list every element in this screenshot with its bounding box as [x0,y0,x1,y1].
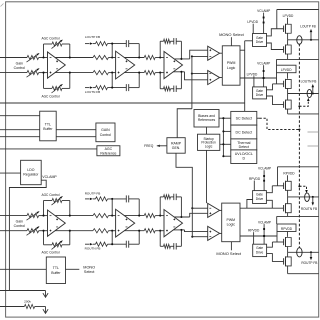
comparator R N [208,226,222,240]
wire R stage3 P to comparator [190,213,208,217]
wire AGC reference input [0,148,97,150]
node RPVDD D right boxed [277,224,296,237]
svg-text:LPVDD: LPVDD [283,14,294,18]
svg-text:TTL: TTL [45,122,51,126]
variable resistor AGC feedback L top [41,36,69,58]
wire LOUTN node [288,88,319,100]
wire Startup to PWM R [206,150,208,203]
wire PWM L out1 [240,49,245,51]
svg-text:PWM: PWM [227,61,236,65]
svg-text:VCLAMP: VCLAMP [257,9,270,13]
svg-text:MONO Select: MONO Select [219,32,245,37]
gate drive C [253,191,267,204]
feedback R stage3 bottom RC [160,230,181,250]
svg-text:Select: Select [84,270,95,274]
svg-text:LPVDD: LPVDD [281,68,292,72]
resistor L stage3 in P [144,55,164,59]
node VCLAMP A [257,9,270,34]
wire PGND D [288,266,319,274]
wire ramp to L comparators [191,55,208,108]
svg-text:LOUTP FB: LOUTP FB [300,25,316,29]
wire L stage1 out P [55,56,93,58]
transistor A low-side [284,45,292,55]
wire gate B high [267,73,284,90]
wire RAMP GEN output to R comparators [176,153,192,237]
sense loop LOUTP [297,36,302,45]
svg-text:RPVDD: RPVDD [248,229,260,233]
block GAIN Control [96,123,115,142]
comparator L N [208,71,223,85]
wire L stage2 out N [122,72,144,74]
block PWM Logic L [222,46,240,85]
svg-text:VCLAMP: VCLAMP [258,220,271,224]
svg-text:200k: 200k [24,300,31,304]
wire L stage2 out P [122,56,144,58]
buffer U-TTL2 [0,257,66,284]
svg-text:MONO Select: MONO Select [216,251,242,256]
dashed branch to ROUTN sense [298,185,307,193]
node VCLAMP D [258,220,271,244]
svg-text:Control: Control [14,224,26,228]
block AGC Reference [97,146,120,156]
svg-text:DC Detect: DC Detect [236,130,253,134]
svg-text:ROUTP FB: ROUTP FB [301,261,317,265]
transistor A high-side [284,24,292,34]
dashed SC detect feedback path [257,118,301,130]
svg-text:LPVDD: LPVDD [247,20,258,24]
node ROUTP FB tap [301,252,317,265]
transistor D high-side [284,237,292,247]
svg-text:LOUTP FB: LOUTP FB [85,35,100,39]
wire R stage2 out P [122,215,144,217]
block SC Detect [231,111,257,125]
node LPVDD A left [247,20,258,34]
node MONO Select top [219,32,245,46]
feedback LOUTN FB resistor and cap [85,73,139,94]
variable resistor L gain N [27,68,40,77]
svg-text:Logic: Logic [205,144,213,148]
wire bootstrap rail C [278,167,319,186]
svg-text:AGC Control: AGC Control [41,94,59,98]
node MONO Select bottom [216,242,242,256]
svg-text:GEN.: GEN. [172,146,181,150]
wire TTL1 to GAIN control [56,130,96,137]
resistor L stage3 in N [144,71,164,75]
wire L stage3 out N [170,71,185,73]
svg-text:Buffer: Buffer [43,127,53,131]
wire Biases to Startup [206,127,208,134]
wire L input N [0,72,48,74]
wire R stage2 out N [122,230,144,232]
svg-text:Drive: Drive [256,251,264,255]
dashed branch to LOUTN sense [298,98,309,108]
node LOUTN FB tap [301,79,317,93]
gate drive D [253,244,267,256]
feedback ROUTN FB resistor and cap [85,231,140,251]
wire gate A high [267,29,284,36]
op-amp R stage3 [164,210,183,237]
label Gain Control L [14,61,26,70]
generator RAMP GEN [167,138,185,154]
wire LDO input [0,172,21,174]
svg-text:Drive: Drive [256,93,264,97]
svg-text:LPVDD: LPVDD [247,73,258,77]
pin stub right 1 [308,131,319,133]
feedback L stage3 top RC [160,38,181,59]
sense loop ROUTN [305,193,310,202]
wire TTL buffer input 1 [0,115,40,117]
wire ramp distribution to RAMP GEN [177,109,192,138]
wire gate D low [267,254,284,262]
wire ramp to R comparators [191,207,207,238]
variable resistor R gain N [27,227,40,236]
node RPVDD C right [283,172,295,182]
block PWM Logic R [222,203,240,242]
resistor L stage2 in P [93,55,116,59]
node FREQ input [144,144,167,148]
svg-text:Gain: Gain [16,220,23,224]
op-amp L stage2 [116,51,135,79]
wire L stage3 P to comparator [190,50,208,59]
svg-text:RPVDD: RPVDD [283,172,295,176]
op-amp R input stage [48,210,66,236]
wire control long line [0,102,245,104]
feedback L stage3 bottom RC [160,72,181,92]
buffer U-TTL1 [40,111,57,141]
feedback ROUTP FB resistor and cap [85,192,139,216]
wire R stage1 out P [55,215,93,217]
regulator LDO [21,160,42,184]
wire PGND C [277,213,319,224]
gate drive B [253,87,267,99]
svg-text:Control: Control [100,133,112,137]
node VCLAMP B [257,62,270,87]
block Biases and References [194,110,219,128]
block DC Detect [231,125,257,139]
wire ROUTP node [288,247,319,257]
wire gate A low [267,43,284,50]
wire GAIN1 input [0,136,40,138]
svg-text:ROUTN FB: ROUTN FB [301,207,317,211]
gate drive A [253,34,267,47]
svg-text:AGC Control: AGC Control [41,251,59,255]
feedback R stage3 top RC [160,194,181,217]
node LPVDD A right [283,14,294,24]
sense loop LOUTN [307,89,312,97]
svg-text:RPVDD: RPVDD [249,177,261,181]
node LPVDD B left [247,73,258,87]
wire R stage1 out N [55,230,93,232]
wire R input P [0,215,48,217]
node VCLAMP C [258,167,271,191]
svg-text:Gain: Gain [16,61,23,65]
wire R input N [0,230,48,232]
op-amp L stage3 [164,51,183,78]
node RPVDD C left [249,177,261,191]
wire bootstrap rail A [277,10,319,29]
svg-text:D: D [242,156,245,160]
svg-text:Biases and: Biases and [198,114,215,118]
svg-text:SC Detect: SC Detect [236,117,252,121]
svg-text:PWM: PWM [227,218,236,222]
sense loop ROUTP [297,248,302,257]
svg-text:RAMP: RAMP [171,141,182,145]
wire PWM L out2 [240,77,277,79]
svg-text:LOUTN FB: LOUTN FB [85,90,100,94]
label Gain Control R [14,220,26,229]
wire R stage3 out P [170,216,190,218]
wire gate C high [266,186,283,193]
block Thermal Detect [231,139,257,150]
svg-text:Logic: Logic [227,66,236,70]
svg-text:Buffer: Buffer [51,271,61,275]
wire R stage3 N to comparator [185,230,208,232]
svg-text:LOUTN FB: LOUTN FB [301,79,317,83]
svg-text:Control: Control [14,66,26,70]
svg-text:Reference: Reference [100,151,116,155]
variable resistor AGC feedback R bottom [41,230,69,255]
wire L stage3 N to comparator [185,72,208,80]
wire PGND A [277,54,319,65]
block Startup Protection Logic [198,134,220,150]
wire gate C low [266,200,272,208]
svg-text:LDO: LDO [27,168,34,172]
svg-text:ROUTP FB: ROUTP FB [85,192,101,196]
node RPVDD D left [248,229,260,245]
wire AGND return with ground arrow [0,291,48,298]
node LOUTP FB tap [300,25,316,40]
wire ROUTN node [288,190,319,203]
variable resistor L gain P [27,53,40,62]
svg-text:Detect: Detect [239,145,249,149]
resistor R stage3 in P [144,214,164,218]
resistor R stage2 in P [93,214,116,218]
resistor R stage2 in N [93,229,116,233]
wire gate D high [267,232,284,248]
wire detect bus [219,117,231,157]
svg-text:AGC Control: AGC Control [41,193,59,197]
wire R stage3 out N [170,229,185,231]
wire L input P [0,57,48,59]
node ROUTN FB tap [301,197,317,211]
resistor R stage3 in N [144,229,164,233]
feedback LOUTP FB resistor and cap [85,35,139,57]
op-amp R stage2 [116,209,135,237]
block UVLO OCL Detect [231,150,257,164]
svg-text:ROUTN FB: ROUTN FB [85,247,101,251]
svg-text:FREQ: FREQ [144,144,154,148]
node VCLAMP LDO output [9,175,57,291]
wire LOUTP node [288,33,319,45]
svg-text:VCLAMP: VCLAMP [42,175,57,179]
svg-text:References: References [198,118,216,122]
svg-text:Regulator: Regulator [23,173,39,177]
wire GAIN0 input [0,129,40,131]
wire PWM L feed vertical [245,41,253,112]
transistor D low-side [284,256,292,266]
wire PGND B [288,109,319,114]
transistor B low-side [284,100,292,110]
node LPVDD B right boxed [277,65,297,79]
svg-text:Drive: Drive [256,40,264,44]
wire PWM R out1 [240,200,283,209]
svg-text:AGC Control: AGC Control [41,36,59,40]
op-amp L input stage [48,52,66,78]
transistor C low-side [284,203,292,213]
wire gate B low [267,96,284,105]
comparator L P [208,46,223,60]
node MONO Select from TTL2 [66,266,96,274]
svg-text:Drive: Drive [256,197,264,201]
wire L stage1 out N [55,72,93,74]
transistor C high-side [284,181,292,191]
svg-text:Logic: Logic [227,223,236,227]
comparator R P [208,203,222,217]
svg-text:VCLAMP: VCLAMP [258,167,271,171]
svg-text:TTL: TTL [53,266,59,270]
svg-text:RPVDD: RPVDD [281,227,293,231]
variable resistor AGC feedback L bottom [41,72,69,99]
corner artifact [1,4,4,7]
pin stub right 2 [308,145,319,147]
wire PWM R out2 [240,235,277,237]
transistor B high-side [284,79,292,89]
svg-text:VCLAMP: VCLAMP [257,62,270,66]
resistor 200k to ground [0,300,48,314]
svg-text:GAIN: GAIN [101,128,110,132]
dashed main feedback bus [298,44,300,248]
resistor L stage2 in N [93,71,116,75]
wire L stage3 out P [170,58,190,60]
variable resistor AGC feedback R top [41,193,69,217]
variable resistor R gain P [27,211,40,220]
